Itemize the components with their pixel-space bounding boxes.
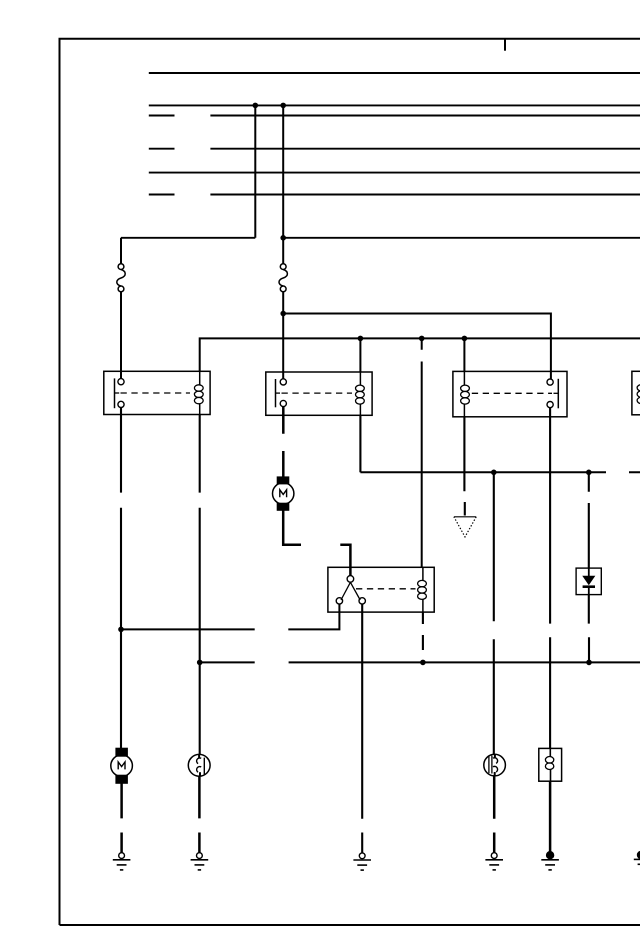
relay K4 changeover [328, 567, 434, 612]
wire bus 6 (broken) [149, 194, 640, 196]
wire motor M2 to ground G1 (broken) [120, 783, 123, 852]
connector arrow to other circuit [454, 517, 476, 537]
wire K4 coil return to lower bus B (broken) [422, 612, 424, 650]
washer pump P1 [188, 754, 210, 776]
node coil rail to K2 coil [358, 336, 364, 342]
circuit breaker CB1 [117, 264, 125, 292]
wire bus 2 [149, 104, 640, 106]
relay K3 [453, 371, 567, 416]
wire K4 middle contact to ground G3 (broken) [361, 604, 363, 853]
wire bus 5 [149, 172, 640, 174]
node lower bus B at diode return [586, 660, 592, 666]
relay K1 [104, 371, 210, 414]
relay K5 partial at right edge [632, 371, 640, 415]
wire coil supply rail [200, 338, 640, 371]
diode D1 [576, 568, 601, 595]
wire lower bus B (broken) [200, 661, 640, 663]
ground G1 [113, 853, 131, 870]
node mid rail to washer pump P2 [491, 470, 497, 476]
washer pump P2 [484, 754, 506, 776]
wire vertical drop 1 [254, 105, 256, 237]
wire washer pump P2 to ground G4 (broken) [493, 776, 496, 853]
wire K3 switch to solenoid L1 (broken) [549, 408, 551, 749]
node coil rail to K3 coil [462, 336, 468, 342]
ground G5 (solid dot) [541, 852, 559, 870]
wire bus 3 (broken) [149, 115, 640, 117]
wire feed to relay K3 switch [283, 314, 551, 379]
node lower bus B at K4 coil return [420, 660, 426, 666]
wire K2 switch to motor M1 (broken) [282, 407, 285, 477]
ground G2 [191, 853, 209, 870]
motor M1 [273, 477, 294, 510]
wire bus 7 left segment to circuit breaker 1 [121, 237, 255, 239]
relay K2 [266, 372, 372, 415]
wire K3 coil return to connector (broken) [463, 417, 465, 516]
circuit breaker CB2 [279, 264, 287, 292]
node K1 coil wire to lower bus B [197, 660, 203, 666]
motor M2 [111, 748, 133, 783]
wire K4 coil feed (broken) [421, 338, 423, 567]
wire bus 1 [149, 72, 640, 74]
wire K2 coil return to mid rail [359, 415, 361, 472]
wire mid rail (broken) [360, 471, 640, 473]
node feed split [280, 311, 286, 317]
wire P2 feed from mid rail (broken) [493, 472, 495, 754]
node on bus 2 at vertical drop 2 [280, 103, 286, 109]
wire K2 coil feed [359, 338, 361, 372]
wire CB1 to relay K1 [120, 238, 122, 379]
node on bus 7 [280, 235, 286, 241]
ground G6 partial at right edge [634, 851, 640, 864]
wire washer pump P1 to ground G2 (broken) [198, 776, 201, 852]
node coil rail to K4 coil [419, 336, 425, 342]
solenoid L1 [539, 748, 562, 781]
connector tick on frame [504, 39, 506, 51]
ground G4 [485, 853, 503, 870]
node K1 switch wire to lower bus A [118, 627, 124, 633]
wire K3 coil feed [463, 338, 465, 371]
wire K1 switch to motor M2 (broken) [120, 408, 122, 749]
wire vertical drop 2 [282, 105, 284, 263]
wire bus 4 (broken) [149, 148, 640, 150]
wire solenoid L1 to ground G5 [549, 781, 552, 852]
wire CB2 to relay K2 switch [282, 292, 284, 379]
ground G3 [353, 853, 371, 870]
wire diode D1 return to lower bus B (broken) [588, 595, 590, 663]
wire diode D1 feed (broken) [588, 472, 590, 568]
node on bus 2 at vertical drop 1 [253, 103, 259, 109]
wire bus 7 right segment [283, 237, 640, 239]
wire lower bus A (broken) [121, 604, 339, 629]
node mid rail to diode D1 [586, 470, 592, 476]
wire K1 coil to washer pump P1 (broken) [199, 415, 201, 755]
wire motor M1 to relay K4 common (broken) [283, 510, 350, 575]
